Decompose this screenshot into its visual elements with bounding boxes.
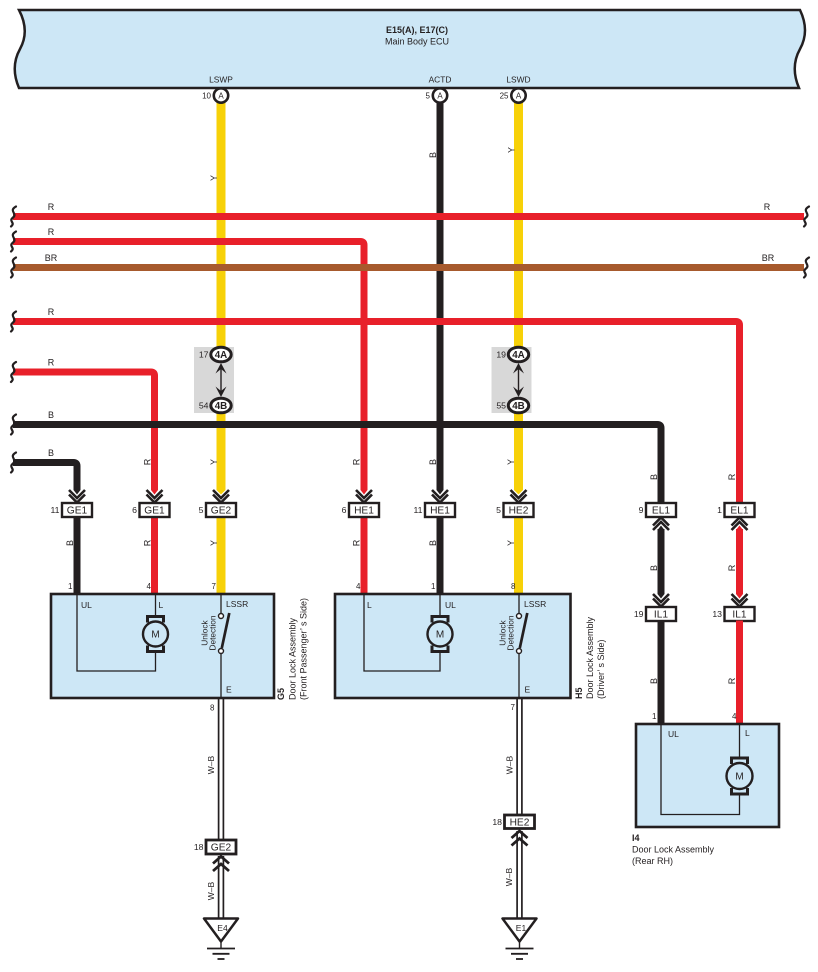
svg-text:H5: H5 xyxy=(574,687,584,699)
svg-text:R: R xyxy=(48,307,55,317)
svg-text:UL: UL xyxy=(81,600,92,610)
svg-text:55: 55 xyxy=(496,401,506,411)
svg-text:R: R xyxy=(727,473,737,480)
svg-text:B: B xyxy=(428,152,438,158)
svg-text:Door Lock Assembly: Door Lock Assembly xyxy=(585,616,595,699)
svg-text:1: 1 xyxy=(431,582,436,591)
svg-text:IL1: IL1 xyxy=(732,610,746,621)
svg-text:Y: Y xyxy=(209,540,219,546)
svg-text:UL: UL xyxy=(445,600,456,610)
svg-text:5: 5 xyxy=(426,91,431,100)
svg-text:54: 54 xyxy=(199,401,209,411)
svg-text:5: 5 xyxy=(199,505,204,515)
svg-text:A: A xyxy=(218,91,224,100)
svg-text:4A: 4A xyxy=(512,350,525,361)
svg-text:Y: Y xyxy=(506,459,516,465)
svg-text:W–B: W–B xyxy=(206,881,216,900)
svg-text:18: 18 xyxy=(492,817,502,827)
svg-text:R: R xyxy=(48,358,55,368)
svg-text:I4: I4 xyxy=(632,833,640,843)
svg-text:BR: BR xyxy=(762,253,775,263)
svg-text:Main Body ECU: Main Body ECU xyxy=(385,37,449,47)
svg-text:7: 7 xyxy=(212,582,217,591)
svg-text:9: 9 xyxy=(639,505,644,515)
svg-text:L: L xyxy=(159,600,164,610)
svg-text:(Rear RH): (Rear RH) xyxy=(632,856,673,866)
svg-text:8: 8 xyxy=(210,704,215,713)
svg-text:7: 7 xyxy=(511,703,516,712)
svg-text:LSSR: LSSR xyxy=(524,599,546,609)
svg-text:G5: G5 xyxy=(276,688,286,700)
svg-text:4B: 4B xyxy=(215,401,228,412)
svg-text:E: E xyxy=(525,685,531,695)
svg-text:Detection: Detection xyxy=(208,615,218,650)
svg-text:A: A xyxy=(437,91,443,100)
svg-text:1: 1 xyxy=(652,712,657,721)
svg-text:R: R xyxy=(143,458,153,465)
svg-text:E: E xyxy=(226,685,232,695)
svg-text:GE1: GE1 xyxy=(144,506,165,517)
svg-text:11: 11 xyxy=(50,505,59,515)
svg-text:19: 19 xyxy=(634,609,644,619)
svg-text:18: 18 xyxy=(194,842,204,852)
svg-text:GE1: GE1 xyxy=(67,506,88,517)
svg-text:GE2: GE2 xyxy=(211,506,232,517)
svg-text:B: B xyxy=(428,459,438,465)
svg-text:W–B: W–B xyxy=(206,755,216,774)
svg-text:6: 6 xyxy=(342,505,347,515)
svg-text:HE1: HE1 xyxy=(354,506,374,517)
svg-text:11: 11 xyxy=(413,505,422,515)
svg-text:(Driver’ s Side): (Driver’ s Side) xyxy=(596,639,606,699)
svg-text:M: M xyxy=(735,772,743,783)
svg-text:M: M xyxy=(436,630,444,641)
svg-text:A: A xyxy=(516,91,522,100)
svg-text:(Front Passenger’ s Side): (Front Passenger’ s Side) xyxy=(299,598,309,700)
svg-text:BR: BR xyxy=(45,253,58,263)
svg-text:8: 8 xyxy=(511,582,516,591)
svg-text:E15(A), E17(C): E15(A), E17(C) xyxy=(386,25,448,35)
svg-text:4: 4 xyxy=(356,582,361,591)
svg-text:M: M xyxy=(151,630,159,641)
svg-text:W–B: W–B xyxy=(504,867,514,886)
svg-text:R: R xyxy=(48,202,55,212)
svg-text:HE2: HE2 xyxy=(509,506,529,517)
svg-text:R: R xyxy=(727,677,737,684)
svg-text:B: B xyxy=(428,540,438,546)
svg-text:E1: E1 xyxy=(516,923,527,933)
svg-text:R: R xyxy=(352,539,362,546)
svg-text:L: L xyxy=(367,600,372,610)
svg-text:HE1: HE1 xyxy=(430,506,450,517)
svg-text:Door Lock Assembly: Door Lock Assembly xyxy=(288,617,298,700)
svg-text:R: R xyxy=(727,564,737,571)
svg-text:25: 25 xyxy=(500,91,509,100)
svg-text:17: 17 xyxy=(199,350,209,360)
svg-text:13: 13 xyxy=(712,609,722,619)
svg-text:Y: Y xyxy=(507,147,517,153)
svg-text:4: 4 xyxy=(147,582,152,591)
svg-text:GE2: GE2 xyxy=(211,843,232,854)
svg-text:LSSR: LSSR xyxy=(226,599,248,609)
svg-text:R: R xyxy=(143,539,153,546)
svg-text:W–B: W–B xyxy=(505,755,515,774)
svg-text:B: B xyxy=(48,448,54,458)
svg-text:4B: 4B xyxy=(512,401,525,412)
svg-text:Y: Y xyxy=(209,459,219,465)
svg-text:Y: Y xyxy=(506,540,516,546)
svg-text:LSWD: LSWD xyxy=(506,75,530,85)
svg-text:UL: UL xyxy=(668,729,679,739)
svg-text:1: 1 xyxy=(68,582,73,591)
svg-text:R: R xyxy=(48,227,55,237)
svg-text:EL1: EL1 xyxy=(730,506,748,517)
svg-text:R: R xyxy=(764,202,771,212)
svg-text:LSWP: LSWP xyxy=(209,75,233,85)
svg-text:EL1: EL1 xyxy=(652,506,670,517)
svg-text:Detection: Detection xyxy=(506,615,516,650)
svg-text:Door Lock Assembly: Door Lock Assembly xyxy=(632,845,715,855)
svg-text:6: 6 xyxy=(132,505,137,515)
svg-text:L: L xyxy=(745,728,750,738)
svg-text:B: B xyxy=(48,410,54,420)
svg-text:B: B xyxy=(649,474,659,480)
svg-text:19: 19 xyxy=(496,350,506,360)
svg-text:4: 4 xyxy=(732,712,737,721)
svg-text:1: 1 xyxy=(717,505,722,515)
svg-text:5: 5 xyxy=(496,505,501,515)
svg-text:HE2: HE2 xyxy=(510,817,530,828)
svg-text:IL1: IL1 xyxy=(654,610,668,621)
svg-text:Y: Y xyxy=(209,175,219,181)
svg-text:ACTD: ACTD xyxy=(429,75,452,85)
svg-text:10: 10 xyxy=(202,91,211,100)
svg-text:E4: E4 xyxy=(217,923,228,933)
svg-text:R: R xyxy=(352,458,362,465)
svg-text:4A: 4A xyxy=(215,350,228,361)
svg-text:B: B xyxy=(65,540,75,546)
